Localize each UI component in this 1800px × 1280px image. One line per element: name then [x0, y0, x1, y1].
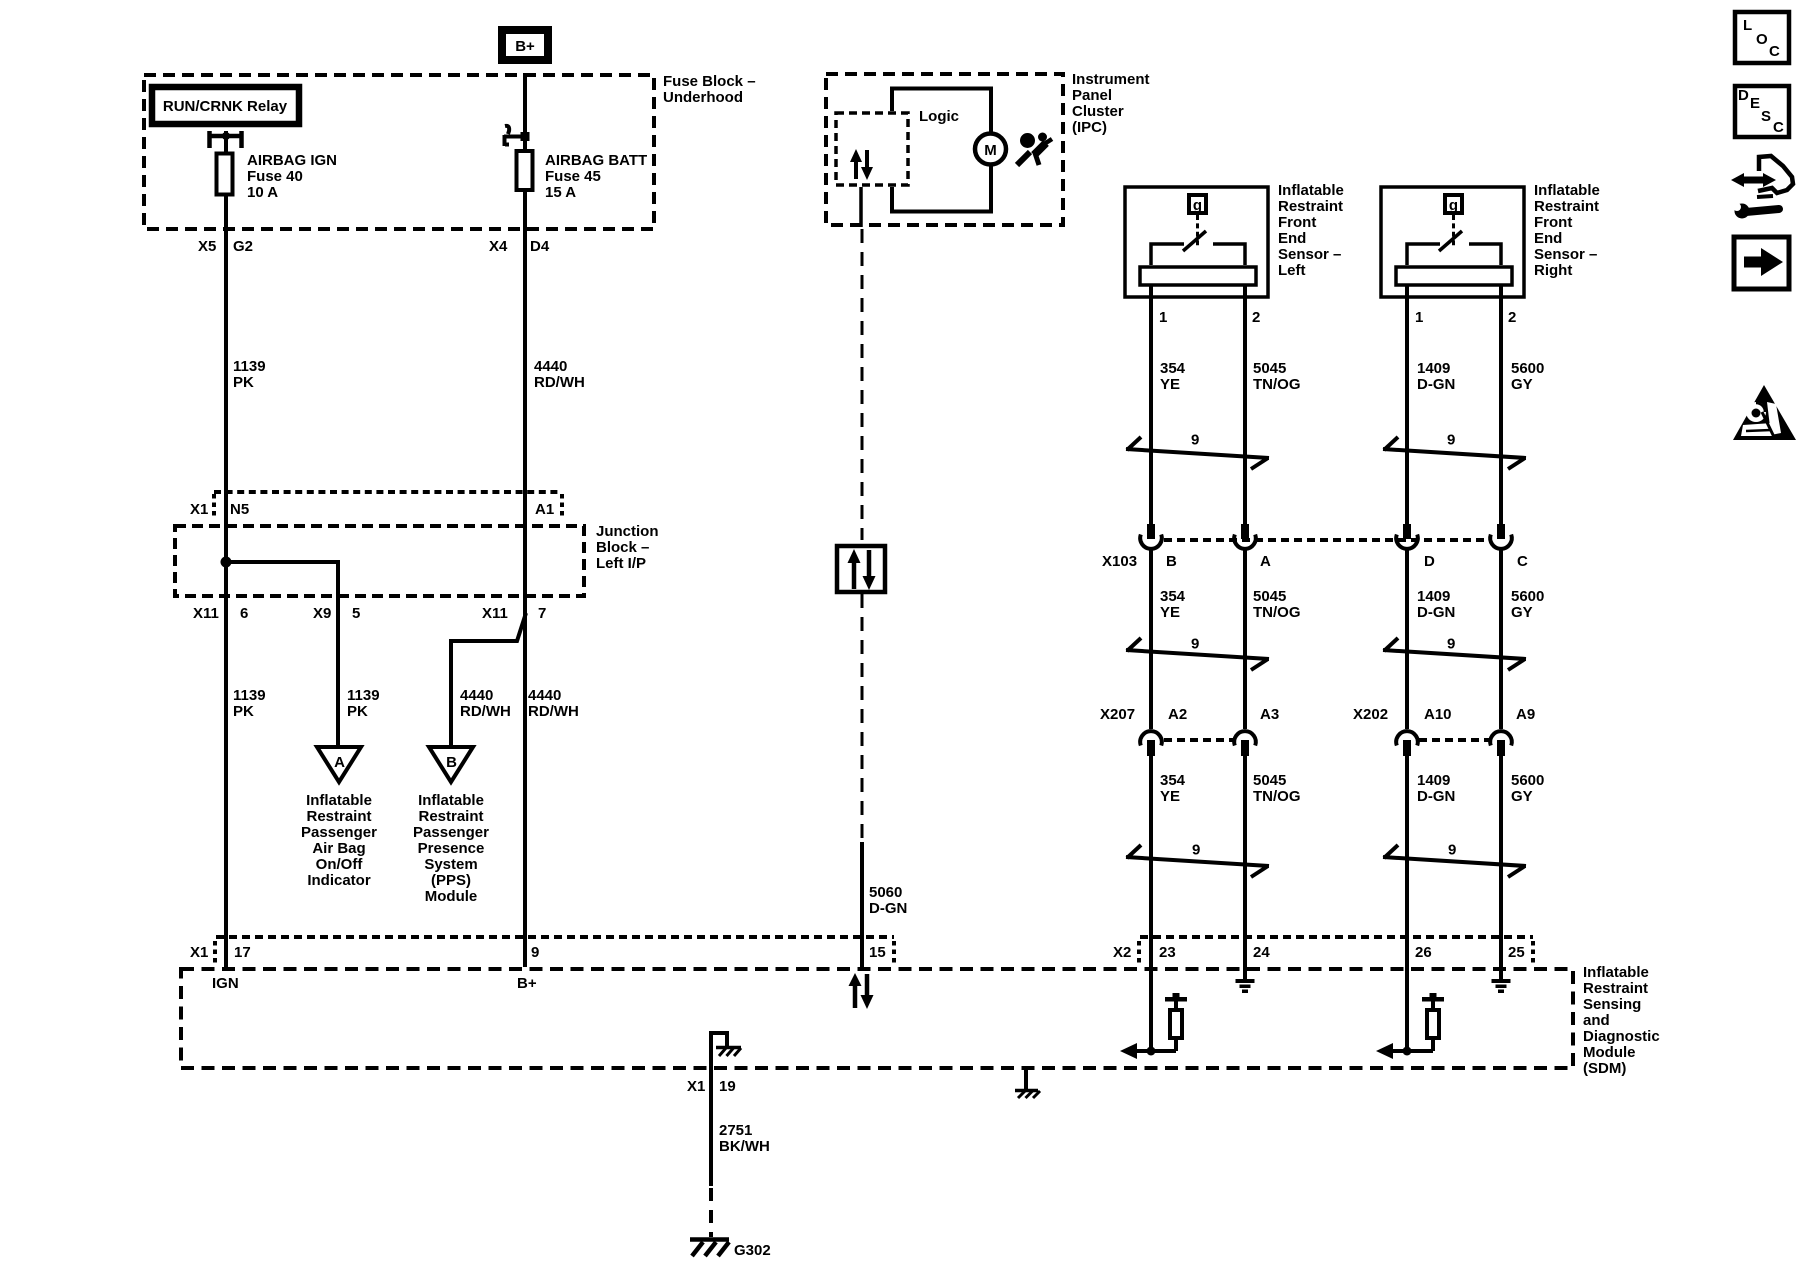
svg-text:(IPC): (IPC)	[1072, 119, 1107, 136]
SDM pin 23 node	[1147, 1047, 1156, 1056]
svg-text:X1: X1	[687, 1078, 705, 1095]
wire 5060 D-GN solid segment	[860, 842, 864, 967]
junction block left I/P box	[175, 526, 584, 596]
air bag telltale icon	[1017, 133, 1052, 166]
wire 5600 GY segment 3	[1499, 755, 1503, 967]
arrow A caption	[301, 792, 377, 889]
svg-text:1139: 1139	[347, 687, 380, 704]
svg-text:Left I/P: Left I/P	[596, 555, 646, 572]
svg-text:O: O	[1756, 31, 1768, 48]
ground symbol pin 24	[1236, 979, 1255, 993]
svg-text:B: B	[1166, 553, 1177, 570]
svg-text:B+: B+	[517, 975, 537, 992]
wire 354 YE segment 3	[1149, 755, 1153, 967]
svg-text:X4: X4	[489, 238, 508, 255]
svg-text:Fuse Block –: Fuse Block –	[663, 73, 756, 90]
connector X207 pin A3 terminal	[1234, 731, 1256, 756]
svg-text:19: 19	[719, 1078, 736, 1095]
svg-text:Cluster: Cluster	[1072, 103, 1124, 120]
wire label row1 5045 TN/OG	[1253, 360, 1301, 393]
wire label row1 5600 GY	[1511, 360, 1544, 393]
wire 1139 PK from fuse 40 to SDM	[224, 131, 228, 967]
svg-text:A10: A10	[1424, 706, 1452, 723]
svg-text:TN/OG: TN/OG	[1253, 788, 1301, 805]
wire 4440 RD/WH label (upper)	[534, 358, 585, 391]
svg-text:17: 17	[234, 944, 251, 961]
connector X202 pin A9 terminal	[1490, 731, 1512, 756]
resistor R1 in SDM	[1165, 993, 1187, 1051]
svg-text:Inflatable: Inflatable	[1583, 964, 1649, 981]
connector X2 SDM pin labels	[1113, 944, 1525, 961]
svg-text:Restraint: Restraint	[1278, 198, 1343, 215]
svg-text:RD/WH: RD/WH	[528, 703, 579, 720]
connector X207 labels	[1100, 706, 1535, 723]
wire 354 YE segment 1	[1149, 285, 1153, 524]
connector X103 dashed link	[1164, 538, 1491, 542]
svg-text:Restraint: Restraint	[306, 808, 371, 825]
wire 2751 dashed to ground	[709, 1188, 713, 1237]
svg-text:1: 1	[1415, 309, 1423, 326]
svg-text:(SDM): (SDM)	[1583, 1060, 1626, 1077]
SDM pin 26 arrow to deployment loop	[1376, 1043, 1393, 1059]
svg-text:A1: A1	[535, 501, 554, 518]
wire label row3 5600 GY	[1511, 772, 1544, 805]
svg-text:D: D	[1738, 87, 1749, 104]
connector X4 pin D4 label	[489, 238, 550, 255]
svg-text:9: 9	[531, 944, 539, 961]
svg-text:9: 9	[1191, 636, 1199, 653]
svg-text:24: 24	[1253, 944, 1270, 961]
svg-text:6: 6	[240, 605, 248, 622]
svg-text:G2: G2	[233, 238, 253, 255]
wire 1409 D-GN segment 2	[1405, 549, 1409, 729]
svg-text:GY: GY	[1511, 788, 1533, 805]
SDM pin 15 up arrow	[849, 973, 862, 1008]
wire label row2 5600 GY	[1511, 588, 1544, 621]
svg-text:Module: Module	[425, 888, 478, 905]
svg-text:Passenger: Passenger	[301, 824, 377, 841]
wire 4440 RD/WH label (lower)	[528, 687, 579, 720]
svg-text:M: M	[984, 142, 997, 159]
IPC label	[1072, 71, 1150, 136]
margin icon diagnostic navigation	[1731, 156, 1793, 197]
svg-text:Left: Left	[1278, 262, 1306, 279]
wire 1409 D-GN segment 3	[1405, 755, 1409, 967]
svg-text:15: 15	[869, 944, 886, 961]
connector X1 SDM pin labels	[190, 944, 886, 961]
svg-text:Inflatable: Inflatable	[418, 792, 484, 809]
wire 5600 GY segment 2	[1499, 549, 1503, 729]
svg-text:B+: B+	[515, 38, 535, 55]
SDM pin 26 internal link	[1385, 1049, 1433, 1053]
connector X207 pin A2 terminal	[1140, 731, 1162, 756]
sensor left pin labels 1 2	[1159, 309, 1260, 326]
svg-text:Panel: Panel	[1072, 87, 1112, 104]
svg-text:X1: X1	[190, 501, 208, 518]
svg-text:AIRBAG BATT: AIRBAG BATT	[545, 152, 647, 169]
svg-text:Fuse 40: Fuse 40	[247, 168, 303, 185]
wire 5060 D-GN label	[869, 884, 907, 917]
svg-text:5600: 5600	[1511, 360, 1544, 377]
svg-text:4440: 4440	[460, 687, 493, 704]
svg-text:GY: GY	[1511, 604, 1533, 621]
connector X202 dashed link	[1419, 738, 1489, 742]
SDM pin 26 node	[1403, 1047, 1412, 1056]
fuse F45 label	[545, 152, 647, 201]
svg-text:Passenger: Passenger	[413, 824, 489, 841]
wire label row2 354 YE	[1160, 588, 1186, 621]
wire 4440 RD/WH label (branch B)	[460, 687, 511, 720]
wire 1139 PK label (upper)	[233, 358, 266, 391]
svg-text:C: C	[1773, 119, 1784, 136]
svg-text:C: C	[1517, 553, 1528, 570]
svg-text:and: and	[1583, 1012, 1610, 1029]
node junction in block	[221, 557, 232, 568]
svg-text:9: 9	[1192, 842, 1200, 859]
svg-text:Right: Right	[1534, 262, 1572, 279]
svg-text:4440: 4440	[528, 687, 561, 704]
svg-text:System: System	[424, 856, 477, 873]
svg-text:1139: 1139	[233, 687, 266, 704]
svg-text:X1: X1	[190, 944, 208, 961]
ground G302	[690, 1240, 771, 1260]
sensor right pin labels 1 2	[1415, 309, 1516, 326]
svg-text:Junction: Junction	[596, 523, 659, 540]
svg-text:Presence: Presence	[418, 840, 485, 857]
fuse F40 label	[247, 152, 337, 201]
svg-text:15 A: 15 A	[545, 184, 576, 201]
SDM pin 23 internal link	[1129, 1049, 1176, 1053]
svg-text:Air Bag: Air Bag	[312, 840, 365, 857]
svg-text:X5: X5	[198, 238, 216, 255]
wire 1139 PK label (branch A)	[347, 687, 380, 720]
SDM pin 26 sense wire	[1405, 967, 1409, 1051]
logic block U1 outline	[892, 89, 991, 212]
wire 1139 PK label (lower left)	[233, 687, 266, 720]
wire serial data 5060 dashed (upper)	[861, 229, 864, 540]
connector X103 labels	[1102, 553, 1528, 570]
svg-text:26: 26	[1415, 944, 1432, 961]
svg-text:Restraint: Restraint	[1534, 198, 1599, 215]
svg-text:A: A	[1260, 553, 1271, 570]
connector X202 pin A10 terminal	[1396, 731, 1418, 756]
svg-text:GY: GY	[1511, 376, 1533, 393]
svg-text:PK: PK	[233, 703, 254, 720]
wire 5045 TN/OG segment 2	[1243, 549, 1247, 729]
wire 2751 BK/WH solid	[709, 1070, 713, 1186]
connector X11 pin 6 / X9 pin 5 / X11 pin 7 labels	[193, 605, 546, 622]
box down arrow	[863, 550, 876, 590]
relay output terminal bracket	[210, 131, 242, 148]
wire branch to X9 pin 5	[226, 562, 338, 747]
svg-text:5600: 5600	[1511, 588, 1544, 605]
wire logic to IPC edge	[859, 187, 863, 227]
sensor left label	[1278, 182, 1344, 279]
serial data up arrow	[850, 149, 862, 179]
node at relay terminal	[222, 132, 230, 140]
svg-text:7: 7	[538, 605, 546, 622]
svg-text:Diagnostic: Diagnostic	[1583, 1028, 1660, 1045]
connector X103 pin A terminal	[1234, 524, 1256, 549]
svg-text:g: g	[1193, 197, 1202, 214]
wire label row3 354 YE	[1160, 772, 1186, 805]
svg-text:A: A	[334, 754, 345, 771]
wire serial data 5060 dashed (lower)	[861, 594, 864, 838]
wire 2751 BK/WH label	[719, 1122, 770, 1155]
svg-text:BK/WH: BK/WH	[719, 1138, 770, 1155]
svg-text:9: 9	[1447, 636, 1455, 653]
svg-text:YE: YE	[1160, 376, 1180, 393]
connector X1 junction row (N5 / A1)	[214, 492, 562, 517]
svg-text:IGN: IGN	[212, 975, 239, 992]
SDM module box	[181, 969, 1573, 1068]
fuse block underhood box	[144, 75, 654, 229]
svg-text:23: 23	[1159, 944, 1176, 961]
svg-text:Instrument: Instrument	[1072, 71, 1150, 88]
svg-text:YE: YE	[1160, 604, 1180, 621]
fuse F40 AIRBAG IGN	[217, 154, 233, 195]
resistor R2 in SDM	[1422, 993, 1444, 1051]
svg-text:D: D	[1424, 553, 1435, 570]
svg-text:A9: A9	[1516, 706, 1535, 723]
svg-text:2751: 2751	[719, 1122, 752, 1139]
svg-text:9: 9	[1191, 432, 1199, 449]
svg-text:X207: X207	[1100, 706, 1135, 723]
wire 1409 D-GN segment 1	[1405, 285, 1409, 524]
sensor right label	[1534, 182, 1600, 279]
svg-text:Logic: Logic	[919, 108, 959, 125]
serial data down arrow	[861, 150, 873, 180]
svg-text:(PPS): (PPS)	[431, 872, 471, 889]
svg-text:9: 9	[1448, 842, 1456, 859]
sensor right terminal bar	[1396, 267, 1512, 285]
svg-text:E: E	[1750, 95, 1760, 112]
box up arrow	[848, 549, 861, 589]
margin icon DESC box	[1735, 86, 1789, 137]
svg-text:5600: 5600	[1511, 772, 1544, 789]
SDM pin 23 sense wire	[1149, 967, 1153, 1051]
svg-text:D-GN: D-GN	[1417, 376, 1455, 393]
svg-text:G302: G302	[734, 1242, 771, 1259]
svg-text:Inflatable: Inflatable	[1278, 182, 1344, 199]
svg-text:D-GN: D-GN	[1417, 788, 1455, 805]
svg-text:5045: 5045	[1253, 360, 1286, 377]
svg-text:PK: PK	[233, 374, 254, 391]
wire 4440 RD/WH from fuse 45 to SDM	[523, 73, 527, 967]
svg-text:RD/WH: RD/WH	[460, 703, 511, 720]
svg-text:A2: A2	[1168, 706, 1187, 723]
off-page arrow A to air bag on/off indicator	[317, 747, 361, 782]
margin icon LOC box	[1735, 12, 1789, 63]
svg-text:Front: Front	[1278, 214, 1316, 231]
serial data two-way box	[837, 546, 885, 592]
relay K RUN/CRNK	[152, 87, 299, 124]
sensor left g-sensor box	[1189, 195, 1206, 214]
connector X207 dashed link	[1164, 738, 1233, 742]
svg-text:RUN/CRNK Relay: RUN/CRNK Relay	[163, 98, 288, 115]
junction block label	[596, 523, 659, 572]
svg-text:D-GN: D-GN	[869, 900, 907, 917]
wire label row2 1409 D-GN	[1417, 588, 1455, 621]
svg-text:1: 1	[1159, 309, 1167, 326]
inflatable restraint front end sensor right box	[1381, 187, 1524, 297]
twisted pair marker row3 right	[1383, 845, 1526, 877]
sensor left switch	[1151, 231, 1245, 265]
svg-text:L: L	[1743, 17, 1752, 34]
svg-text:9: 9	[1447, 432, 1455, 449]
svg-text:354: 354	[1160, 588, 1186, 605]
svg-text:X2: X2	[1113, 944, 1131, 961]
svg-text:A3: A3	[1260, 706, 1279, 723]
margin icon forward arrow box	[1734, 237, 1789, 289]
svg-text:X103: X103	[1102, 553, 1137, 570]
svg-text:Inflatable: Inflatable	[306, 792, 372, 809]
svg-text:D-GN: D-GN	[1417, 604, 1455, 621]
wire 5045 TN/OG segment 3	[1243, 755, 1247, 967]
SDM internal chassis ground near pin 19	[711, 1033, 741, 1070]
SDM pin 24 ground wire	[1243, 967, 1247, 980]
svg-text:C: C	[1769, 43, 1780, 60]
connector X103 pin D terminal	[1396, 524, 1418, 549]
svg-text:RD/WH: RD/WH	[534, 374, 585, 391]
svg-text:End: End	[1278, 230, 1306, 247]
svg-text:D4: D4	[530, 238, 550, 255]
wire 5600 GY segment 1	[1499, 285, 1503, 524]
svg-text:354: 354	[1160, 360, 1186, 377]
svg-text:X202: X202	[1353, 706, 1388, 723]
connector X2 SDM row	[1139, 937, 1533, 963]
wire label row1 354 YE	[1160, 360, 1186, 393]
off-page arrow B to PPS module	[429, 747, 473, 782]
B+ power terminal	[502, 30, 548, 60]
instrument panel cluster box	[826, 74, 1063, 225]
wire label row2 5045 TN/OG	[1253, 588, 1301, 621]
svg-text:25: 25	[1508, 944, 1525, 961]
svg-text:N5: N5	[230, 501, 249, 518]
sensor right g-sensor box	[1445, 195, 1462, 214]
svg-text:Inflatable: Inflatable	[1534, 182, 1600, 199]
sensor right switch	[1407, 231, 1501, 265]
svg-text:1409: 1409	[1417, 588, 1450, 605]
svg-text:Sensor –: Sensor –	[1278, 246, 1341, 263]
svg-text:g: g	[1449, 197, 1458, 214]
svg-text:5060: 5060	[869, 884, 902, 901]
svg-text:X11: X11	[193, 605, 219, 622]
SDM case chassis ground	[1015, 1070, 1040, 1098]
twisted pair marker row3 left	[1126, 845, 1269, 877]
svg-text:2: 2	[1252, 309, 1260, 326]
svg-text:Indicator: Indicator	[307, 872, 371, 889]
sensor left dashed actuator line	[1196, 215, 1199, 246]
svg-text:TN/OG: TN/OG	[1253, 604, 1301, 621]
sensor left terminal bar	[1140, 267, 1256, 285]
twisted pair marker row1 left	[1126, 437, 1269, 469]
SDM pin 23 arrow to deployment loop	[1120, 1043, 1137, 1059]
twisted pair marker row2 left	[1126, 638, 1269, 670]
fuse block underhood label	[663, 73, 756, 106]
connector X5 pin G2 label	[198, 238, 253, 255]
margin icon SRS warning triangle	[1733, 385, 1796, 440]
serial data interface dashed box	[836, 113, 908, 185]
connector X1 pin N5 / A1 labels	[190, 501, 554, 518]
svg-text:354: 354	[1160, 772, 1186, 789]
wire 5045 TN/OG segment 1	[1243, 285, 1247, 524]
wire label row3 1409 D-GN	[1417, 772, 1455, 805]
margin icon wrench	[1730, 203, 1779, 219]
twisted pair marker row1 right	[1383, 437, 1526, 469]
svg-text:X11: X11	[482, 605, 508, 622]
svg-text:1409: 1409	[1417, 360, 1450, 377]
wire label row1 1409 D-GN	[1417, 360, 1455, 393]
svg-text:Sensor –: Sensor –	[1534, 246, 1597, 263]
svg-text:End: End	[1534, 230, 1562, 247]
SDM label	[1583, 964, 1660, 1077]
twisted pair marker row2 right	[1383, 638, 1526, 670]
svg-text:5: 5	[352, 605, 360, 622]
sensor right dashed actuator line	[1452, 215, 1455, 246]
svg-text:1409: 1409	[1417, 772, 1450, 789]
svg-text:5045: 5045	[1253, 772, 1286, 789]
svg-text:10 A: 10 A	[247, 184, 278, 201]
circuit breaker lever above fuse 45	[504, 126, 523, 146]
svg-text:Module: Module	[1583, 1044, 1636, 1061]
SDM pin 15 down arrow	[861, 974, 874, 1009]
connector X103 pin C terminal	[1490, 524, 1512, 549]
connector X1 pin 19 labels	[687, 1078, 736, 1095]
svg-text:4440: 4440	[534, 358, 567, 375]
svg-text:YE: YE	[1160, 788, 1180, 805]
svg-text:AIRBAG IGN: AIRBAG IGN	[247, 152, 337, 169]
svg-text:5045: 5045	[1253, 588, 1286, 605]
svg-text:1139: 1139	[233, 358, 266, 375]
svg-text:Underhood: Underhood	[663, 89, 743, 106]
svg-text:S: S	[1761, 108, 1771, 125]
svg-text:Sensing: Sensing	[1583, 996, 1641, 1013]
svg-text:PK: PK	[347, 703, 368, 720]
connector X103 pin B terminal	[1140, 524, 1162, 549]
wire 354 YE segment 2	[1149, 549, 1153, 729]
svg-text:B: B	[446, 754, 457, 771]
wire label row3 5045 TN/OG	[1253, 772, 1301, 805]
svg-text:Restraint: Restraint	[1583, 980, 1648, 997]
arrow B caption	[413, 792, 489, 905]
svg-text:Front: Front	[1534, 214, 1572, 231]
connector X1 SDM row	[215, 937, 894, 963]
motor M air bag indicator	[975, 134, 1006, 165]
svg-text:Block –: Block –	[596, 539, 649, 556]
svg-text:Fuse 45: Fuse 45	[545, 168, 601, 185]
SDM pin 25 ground wire	[1499, 967, 1503, 980]
inflatable restraint front end sensor left box	[1125, 187, 1268, 297]
ground symbol pin 25	[1492, 979, 1511, 993]
fuse F45 AIRBAG BATT	[517, 151, 533, 190]
svg-text:TN/OG: TN/OG	[1253, 376, 1301, 393]
svg-text:Restraint: Restraint	[418, 808, 483, 825]
node above fuse 45	[521, 132, 530, 141]
wire 4440 RD/WH branch to PPS module	[451, 613, 526, 747]
svg-text:On/Off: On/Off	[316, 856, 364, 873]
svg-text:2: 2	[1508, 309, 1516, 326]
svg-text:X9: X9	[313, 605, 331, 622]
